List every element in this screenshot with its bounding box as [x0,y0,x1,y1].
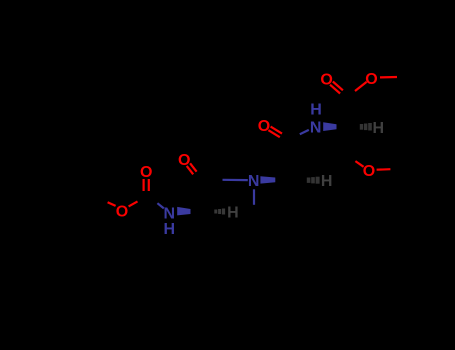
Phe C=O double bond red halves [187,163,197,174]
wire: invisible carbon skeleton (black on black, for structure completeness) [35,73,436,265]
svg-text:H: H [164,221,176,238]
wedge bond N-CA(Pro) blue half [260,176,275,183]
carbamate: bond O-CH2(benzyl) red half [108,202,116,206]
Ser ester C=O double bond red halves [330,82,343,94]
bond O-CH2(benzyl ester) red half [380,76,397,79]
svg-text:H: H [227,204,239,221]
svg-text:O: O [258,118,270,135]
svg-text:O: O [365,71,377,88]
carbamate: double bond C=O red halves [144,179,149,191]
svg-text:N: N [248,173,260,190]
svg-text:H: H [310,101,322,118]
amide bond C-N(Pro) blue half [223,179,248,182]
svg-text:O: O [116,203,128,220]
svg-text:O: O [140,164,152,181]
Pro C=O double bond red halves [268,127,282,138]
wedge bond N-CA(Ser) blue half [323,122,336,131]
svg-text:H: H [373,120,385,137]
amide bond C-N(Ser) blue half [300,130,309,134]
svg-text:H: H [321,173,333,190]
svg-text:N: N [310,119,322,136]
svg-text:O: O [363,163,375,180]
svg-text:N: N [164,205,176,222]
bond O-CH2(benzyl ether) red half [377,168,391,171]
hashed wedge H on CA(Phe) gray dashes [214,209,225,215]
bond N-C5(Pro ring) blue half [253,189,255,205]
hashed wedge H on CA(Ser) gray dashes [360,123,372,131]
svg-text:O: O [178,152,190,169]
carbamate: bond C-N blue half [157,203,163,208]
hashed wedge H on CA(Pro) gray dashes [307,177,320,184]
bond CH2-O red half [355,161,363,167]
wedge bond N-CA(Phe) blue half [177,207,190,216]
bond C-O(ester) red half [355,82,367,91]
carbamate: bond O-C red half [129,201,138,206]
